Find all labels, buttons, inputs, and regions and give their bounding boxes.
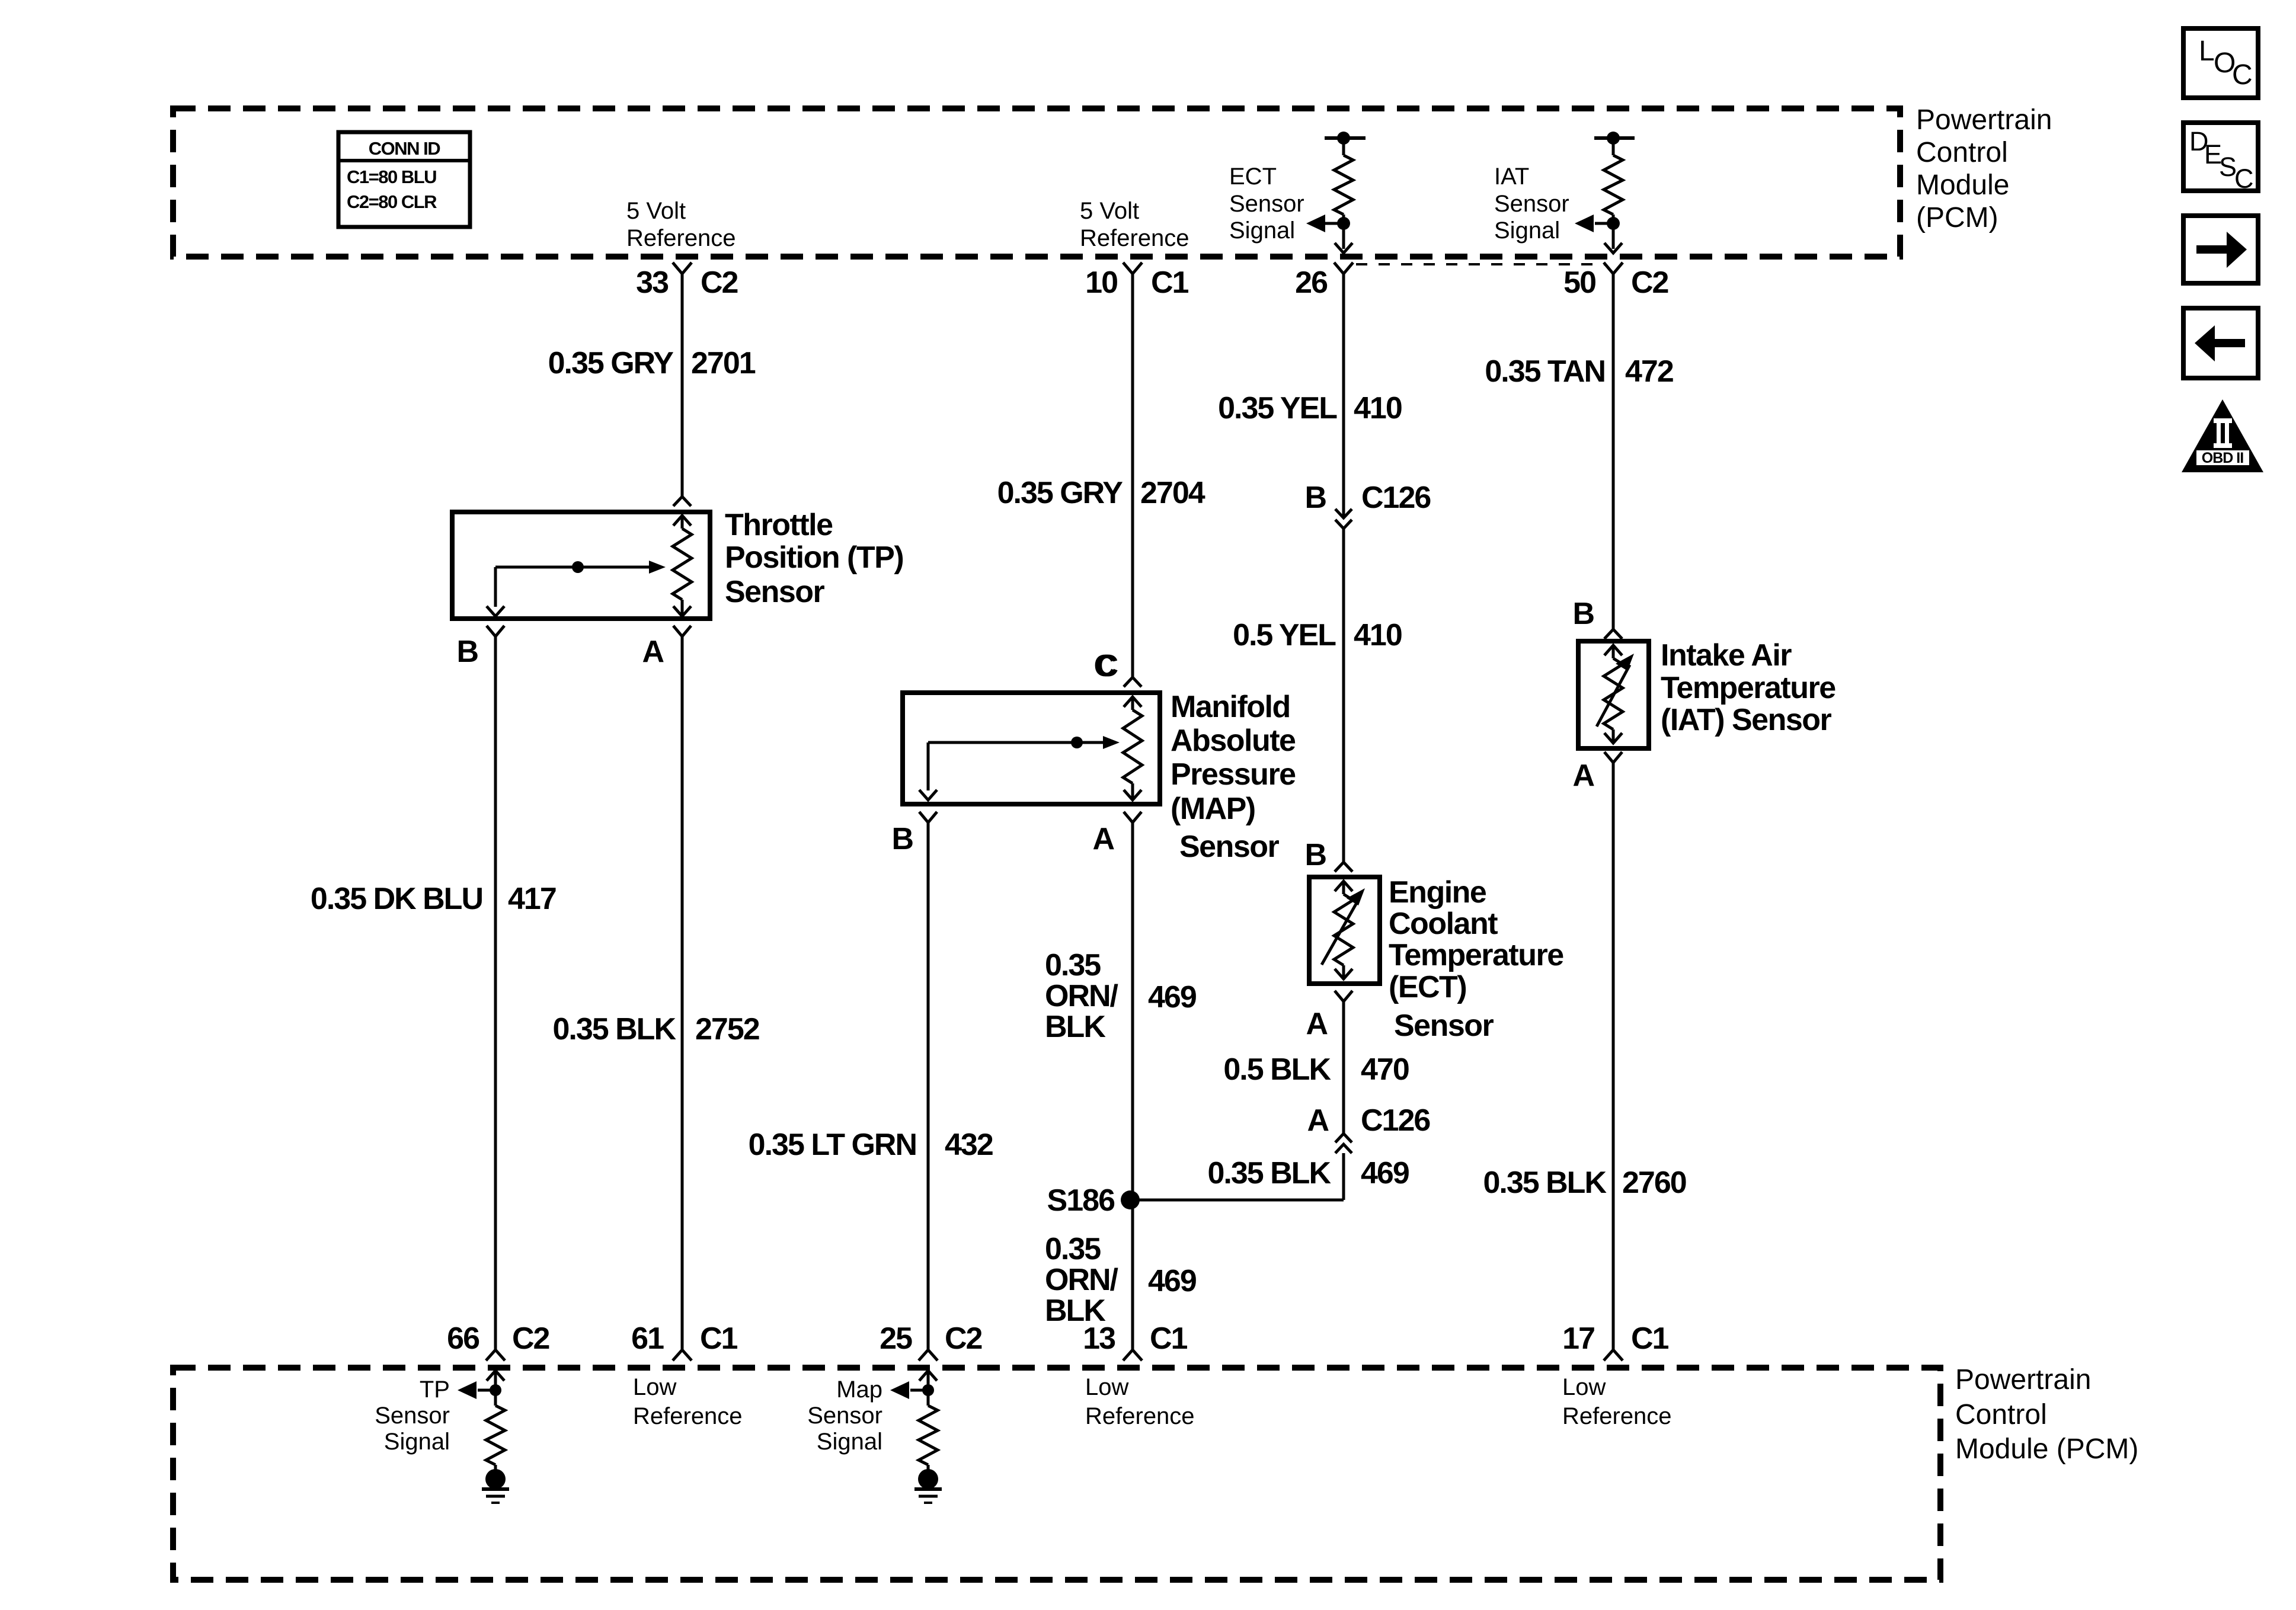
svg-text:472: 472 — [1625, 354, 1673, 389]
label Engine Coolant Temperature (ECT) Sensor — [1389, 875, 1563, 1043]
svg-text:Signal: Signal — [1229, 217, 1295, 244]
svg-text:5 Volt: 5 Volt — [1080, 198, 1139, 224]
svg-text:469: 469 — [1361, 1156, 1409, 1190]
svg-text:IAT: IAT — [1494, 164, 1529, 190]
svg-text:0.35 GRY: 0.35 GRY — [997, 476, 1123, 510]
svg-text:Map: Map — [836, 1377, 882, 1403]
svg-text:2752: 2752 — [695, 1012, 759, 1046]
svg-text:66: 66 — [447, 1321, 479, 1356]
svg-text:Temperature: Temperature — [1661, 671, 1835, 705]
label Manifold Absolute Pressure (MAP) Sensor — [1171, 690, 1296, 864]
svg-text:C2: C2 — [512, 1321, 549, 1356]
svg-text:C1=80 BLU: C1=80 BLU — [347, 167, 436, 187]
icon forward arrow box — [2183, 216, 2258, 283]
svg-text:0.35 TAN: 0.35 TAN — [1485, 354, 1605, 389]
svg-text:S186: S186 — [1047, 1183, 1115, 1218]
svg-text:0.35: 0.35 — [1045, 1232, 1101, 1266]
svg-text:Pressure: Pressure — [1171, 757, 1296, 792]
svg-text:Low: Low — [1085, 1374, 1128, 1400]
engine coolant temperature sensor box — [1309, 877, 1380, 984]
svg-text:Powertrain: Powertrain — [1916, 104, 2052, 136]
svg-text:Reference: Reference — [1562, 1403, 1672, 1429]
ECT internal pull-up resistor (in PCM) — [1325, 136, 1366, 140]
wire 5V ref PCM pin33 to TP sensor pin C — [681, 274, 684, 496]
svg-text:C2: C2 — [945, 1321, 982, 1356]
svg-text:2704: 2704 — [1140, 476, 1205, 510]
svg-text:C1: C1 — [700, 1321, 738, 1356]
icon LOC box — [2183, 28, 2258, 98]
svg-text:C1: C1 — [1150, 1321, 1188, 1356]
node ECT sensor signal junction — [1337, 217, 1350, 230]
CONN ID box — [338, 132, 470, 227]
svg-text:0.35 DK BLU: 0.35 DK BLU — [311, 882, 482, 916]
svg-text:B: B — [1304, 838, 1326, 872]
svg-text:Module: Module — [1916, 169, 2009, 201]
wire ECT signal to pin 26 — [1342, 223, 1345, 249]
svg-text:33: 33 — [636, 265, 669, 300]
svg-text:Low: Low — [633, 1374, 676, 1400]
svg-text:Signal: Signal — [817, 1429, 882, 1455]
svg-text:C1: C1 — [1631, 1321, 1669, 1356]
svg-text:TP: TP — [420, 1377, 450, 1403]
svg-text:25: 25 — [880, 1321, 912, 1356]
MAP pin B connector — [919, 812, 937, 822]
pin 17 C1 connector — [1604, 1350, 1623, 1361]
pin 26 connector — [1334, 263, 1353, 274]
svg-text:(PCM): (PCM) — [1916, 202, 1998, 233]
svg-text:Coolant: Coolant — [1389, 907, 1498, 941]
svg-text:13: 13 — [1083, 1321, 1115, 1356]
svg-text:Low: Low — [1562, 1374, 1606, 1400]
svg-text:A: A — [1572, 758, 1594, 793]
pin 33 C2 connector — [673, 263, 692, 274]
svg-text:B: B — [456, 635, 478, 669]
label Powertrain Control Module (PCM) bottom right — [1955, 1364, 2138, 1465]
svg-text:Signal: Signal — [384, 1429, 450, 1455]
wire TP low reference pin A to PCM pin 61 — [681, 636, 684, 1350]
wire PCM pin 26 to C126 pin B — [1342, 274, 1345, 518]
svg-text:Temperature: Temperature — [1389, 938, 1563, 972]
svg-text:BLK: BLK — [1045, 1010, 1106, 1044]
svg-text:Module (PCM): Module (PCM) — [1955, 1433, 2138, 1465]
svg-text:C126: C126 — [1361, 481, 1431, 515]
ECT thermistor — [1335, 881, 1352, 891]
TP sensor signal input circuit in PCM — [487, 1371, 504, 1381]
icon OBD II triangle — [2182, 399, 2263, 472]
wire C126 pin B to ECT sensor pin B — [1342, 529, 1345, 862]
svg-text:ORN/: ORN/ — [1045, 979, 1118, 1013]
svg-text:B: B — [1304, 481, 1326, 515]
wire PCM pin 50 to IAT sensor pin B — [1612, 274, 1615, 629]
label Throttle Position (TP) Sensor — [725, 508, 903, 609]
svg-text:Reference: Reference — [1080, 225, 1189, 251]
wire ECT pin A to C126 pin A — [1342, 1001, 1345, 1134]
svg-text:2701: 2701 — [691, 346, 756, 380]
svg-text:432: 432 — [945, 1128, 993, 1162]
svg-text:L: L — [2199, 36, 2215, 67]
IAT pin A connector — [1604, 752, 1622, 763]
pin 61 C1 connector — [673, 1350, 692, 1361]
svg-text:50: 50 — [1563, 265, 1595, 300]
svg-text:2760: 2760 — [1622, 1166, 1686, 1200]
svg-text:Control: Control — [1955, 1399, 2047, 1430]
svg-text:ORN/: ORN/ — [1045, 1263, 1118, 1297]
wire splice S186 to ECT branch — [1130, 1199, 1344, 1202]
svg-text:B: B — [891, 822, 913, 856]
svg-text:C126: C126 — [1361, 1103, 1430, 1138]
ECT Sensor Signal arrow — [1325, 222, 1344, 225]
svg-text:Signal: Signal — [1494, 217, 1560, 244]
MAP pin A connector — [1124, 812, 1141, 822]
svg-text:0.35: 0.35 — [1045, 948, 1101, 982]
MAP sensor potentiometer resistor — [1124, 697, 1141, 707]
svg-text:0.5 BLK: 0.5 BLK — [1223, 1052, 1331, 1087]
svg-text:417: 417 — [508, 882, 556, 916]
svg-text:(MAP): (MAP) — [1171, 792, 1255, 826]
svg-text:410: 410 — [1354, 618, 1402, 652]
svg-text:0.35 YEL: 0.35 YEL — [1218, 391, 1337, 425]
svg-text:61: 61 — [631, 1321, 664, 1356]
wire TP signal pin B to PCM pin 66 — [494, 636, 497, 1350]
svg-text:410: 410 — [1354, 391, 1402, 425]
svg-text:Control: Control — [1916, 137, 2008, 168]
svg-text:5 Volt: 5 Volt — [626, 198, 686, 224]
svg-text:C2: C2 — [701, 265, 738, 300]
svg-text:A: A — [1307, 1103, 1329, 1138]
svg-text:Sensor: Sensor — [1229, 191, 1304, 217]
TP sensor wiper arrow — [495, 566, 650, 569]
svg-text:470: 470 — [1361, 1052, 1409, 1087]
pin 50 C2 connector — [1604, 263, 1623, 274]
svg-text:0.35 GRY: 0.35 GRY — [548, 346, 674, 380]
svg-text:C: C — [1093, 649, 1115, 683]
svg-text:A: A — [1092, 822, 1114, 856]
svg-text:A: A — [642, 635, 664, 669]
pin 13 C1 connector — [1123, 1350, 1142, 1361]
wire MAP low ref pin A to splice S186 — [1131, 822, 1134, 1350]
svg-text:C2: C2 — [1631, 265, 1668, 300]
IAT Sensor Signal arrow — [1595, 222, 1613, 225]
svg-text:Intake Air: Intake Air — [1661, 638, 1792, 673]
pin 10 C1 connector — [1123, 263, 1142, 274]
svg-text:Absolute: Absolute — [1171, 724, 1296, 758]
pin 66 C2 connector — [486, 1350, 505, 1361]
throttle position sensor box — [452, 512, 710, 619]
svg-text:Reference: Reference — [626, 225, 736, 251]
svg-text:Engine: Engine — [1389, 875, 1486, 910]
svg-text:Reference: Reference — [633, 1403, 743, 1429]
svg-text:17: 17 — [1562, 1321, 1594, 1356]
svg-text:26: 26 — [1295, 265, 1328, 300]
svg-text:Position (TP): Position (TP) — [725, 540, 903, 575]
svg-text:Sensor: Sensor — [375, 1403, 450, 1429]
svg-text:0.35 BLK: 0.35 BLK — [552, 1012, 676, 1046]
svg-text:C2=80 CLR: C2=80 CLR — [347, 191, 437, 212]
pin 25 C2 connector — [919, 1350, 938, 1361]
svg-text:0.5 YEL: 0.5 YEL — [1233, 618, 1336, 652]
label Intake Air Temperature (IAT) Sensor — [1661, 638, 1835, 737]
svg-text:469: 469 — [1148, 1264, 1196, 1298]
icon back arrow box — [2183, 308, 2258, 378]
manifold absolute pressure sensor box — [903, 693, 1160, 804]
svg-text:(ECT): (ECT) — [1389, 970, 1466, 1004]
IAT internal pull-up resistor (in PCM) — [1594, 136, 1635, 140]
svg-text:Sensor: Sensor — [1394, 1009, 1494, 1043]
svg-text:0.35 BLK: 0.35 BLK — [1207, 1156, 1331, 1190]
intake air temperature sensor box — [1578, 641, 1649, 748]
svg-text:Reference: Reference — [1085, 1403, 1195, 1429]
icon DESC box — [2183, 123, 2258, 191]
svg-text:Sensor: Sensor — [725, 575, 825, 609]
svg-text:ECT: ECT — [1229, 164, 1277, 190]
svg-text:Sensor: Sensor — [1494, 191, 1569, 217]
MAP sensor wiper arrow — [928, 741, 1104, 744]
svg-text:B: B — [1572, 597, 1594, 631]
ECT pin A connector — [1335, 991, 1352, 1001]
svg-text:A: A — [1306, 1007, 1328, 1041]
ground TP signal — [485, 1469, 506, 1489]
PCM top dashed box — [173, 108, 1900, 257]
label 0.35 ORN/BLK 469 lower — [1045, 1232, 1196, 1328]
svg-text:Sensor: Sensor — [1179, 830, 1280, 864]
svg-text:0.35 LT GRN: 0.35 LT GRN — [749, 1128, 916, 1162]
svg-text:469: 469 — [1148, 980, 1196, 1014]
TP pin A connector — [673, 626, 691, 636]
wire 5V ref PCM pin10 to MAP sensor pin C — [1131, 274, 1134, 677]
thin dashed line C2 connector boundary — [1356, 263, 1606, 265]
IAT thermistor — [1604, 645, 1622, 655]
svg-text:0.35 BLK: 0.35 BLK — [1483, 1166, 1607, 1200]
Map sensor signal input circuit in PCM — [919, 1371, 937, 1381]
svg-text:C: C — [2232, 59, 2253, 91]
label 0.35 ORN/BLK 469 upper — [1045, 948, 1196, 1044]
svg-text:C: C — [2234, 164, 2254, 194]
TP sensor potentiometer resistor — [673, 516, 691, 526]
svg-text:Sensor: Sensor — [807, 1403, 882, 1429]
ground Map signal — [918, 1469, 938, 1489]
node IAT sensor signal junction — [1607, 217, 1620, 230]
svg-text:(IAT) Sensor: (IAT) Sensor — [1661, 703, 1832, 737]
TP pin B connector — [487, 626, 504, 636]
svg-text:Powertrain: Powertrain — [1955, 1364, 2091, 1395]
svg-text:CONN ID: CONN ID — [369, 138, 441, 159]
svg-text:OBD II: OBD II — [2202, 450, 2243, 466]
wire C126 pin A to splice S186 — [1342, 1153, 1345, 1200]
svg-text:Throttle: Throttle — [725, 508, 833, 542]
svg-text:C1: C1 — [1151, 265, 1189, 300]
PCM bottom dashed box — [173, 1368, 1940, 1580]
label Powertrain Control Module (PCM) top right — [1916, 104, 2052, 233]
wire IAT signal to pin 50 — [1612, 223, 1615, 249]
wire IAT pin A to PCM pin 17 — [1612, 763, 1615, 1350]
svg-text:Manifold: Manifold — [1171, 690, 1290, 724]
svg-text:10: 10 — [1085, 265, 1117, 300]
wire MAP signal pin B to PCM pin 25 — [927, 822, 930, 1350]
